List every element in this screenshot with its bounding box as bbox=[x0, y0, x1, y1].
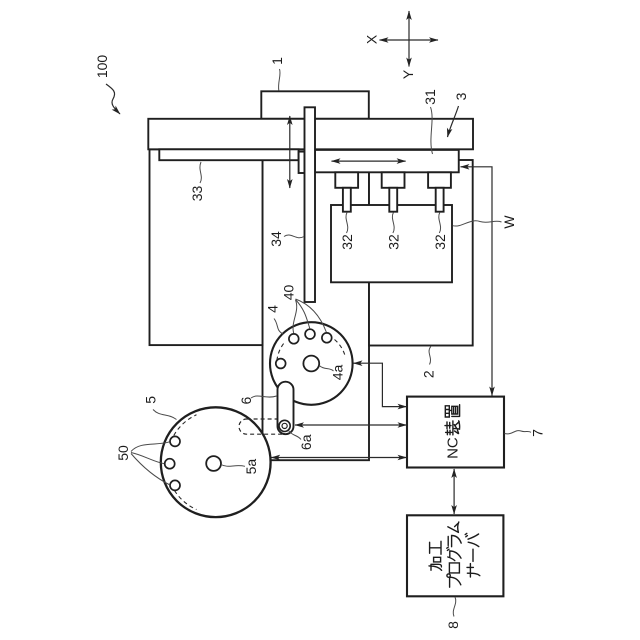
wire leader arrow of 3 bbox=[448, 106, 459, 137]
tool hole on 4 left bbox=[276, 359, 286, 369]
svg-text:NC: NC bbox=[445, 437, 462, 459]
kanji kou of kakou bbox=[430, 541, 441, 554]
dashed pitch arc lower on 5 bbox=[175, 491, 197, 510]
wire W feed line bbox=[461, 167, 493, 396]
svg-text:Y: Y bbox=[400, 69, 416, 79]
wire leader of 7 bbox=[505, 431, 532, 434]
turret disc 4 bbox=[270, 322, 353, 405]
svg-text:7: 7 bbox=[530, 429, 546, 437]
kanji sou of souchi bbox=[445, 421, 460, 435]
NC device text bbox=[445, 405, 462, 459]
bar 33 bbox=[159, 149, 298, 160]
tool hole on 5 upper bbox=[170, 436, 180, 446]
box 1 bbox=[261, 91, 369, 119]
dashed phantom link bbox=[239, 419, 292, 434]
svg-text:4a: 4a bbox=[330, 365, 346, 381]
horizontal double arrow in bar 31 bbox=[332, 160, 406, 162]
tool hole on 5 middle bbox=[165, 459, 175, 469]
svg-text:8: 8 bbox=[445, 621, 461, 629]
svg-text:1: 1 bbox=[269, 57, 285, 65]
bar 31 bbox=[315, 150, 459, 172]
svg-text:3: 3 bbox=[453, 92, 469, 100]
dashed pitch arc upper on 5 bbox=[174, 415, 197, 436]
svg-text:50: 50 bbox=[115, 445, 131, 461]
dashed pitch arc left on 4 bbox=[277, 344, 284, 361]
wire leader 40 to hole2 bbox=[296, 300, 310, 329]
svg-text:34: 34 bbox=[268, 231, 284, 247]
kanji ka of kakou bbox=[429, 557, 442, 570]
wire NC to turret 5 bbox=[271, 457, 406, 459]
svg-text:6a: 6a bbox=[298, 434, 314, 450]
wire leader arrow of 100 bbox=[106, 84, 120, 114]
wire leader 32 second bbox=[392, 213, 394, 234]
wire leader of 1 bbox=[279, 69, 281, 91]
central column bbox=[263, 149, 370, 460]
svg-text:32: 32 bbox=[339, 234, 355, 250]
wire leader 40 to hole3 bbox=[296, 299, 327, 332]
spindle stem 2 bbox=[389, 188, 397, 212]
svg-text:5: 5 bbox=[142, 396, 158, 404]
spindle body box bbox=[331, 205, 452, 282]
svg-text:4: 4 bbox=[264, 305, 280, 313]
center hole 5a bbox=[206, 456, 221, 471]
svg-text:40: 40 bbox=[281, 285, 297, 301]
wire leader 40 to hole1 bbox=[293, 300, 297, 333]
bar 34 bbox=[305, 107, 316, 302]
katakana pu bbox=[447, 574, 461, 587]
wire leader of 6a bbox=[289, 431, 302, 440]
wire leader of 33 bbox=[200, 162, 201, 183]
wire leader 32 third bbox=[439, 213, 441, 234]
katakana ra bbox=[448, 536, 461, 547]
NC device box 7 bbox=[407, 397, 504, 468]
spindle stem 1 bbox=[343, 188, 351, 212]
pivot 6a inner bbox=[282, 423, 287, 428]
katakana long dash bbox=[472, 549, 474, 561]
link arm 6 bbox=[278, 382, 294, 435]
spindle stem 3 bbox=[436, 188, 444, 212]
svg-text:33: 33 bbox=[189, 186, 205, 202]
wire leader of 31 bbox=[431, 107, 433, 154]
tool hole on 4 upper-left bbox=[289, 334, 299, 344]
svg-text:W: W bbox=[501, 215, 517, 229]
wire leader 50 to upper hole bbox=[131, 442, 170, 452]
svg-text:32: 32 bbox=[386, 234, 402, 250]
wire leader of 4a bbox=[319, 366, 333, 372]
svg-text:32: 32 bbox=[432, 234, 448, 250]
slider block bbox=[299, 152, 305, 173]
server box text bbox=[429, 522, 480, 587]
wire leader of 5 bbox=[153, 410, 177, 420]
wire leader 50 to lower hole bbox=[131, 454, 170, 486]
center hole 4a bbox=[303, 356, 319, 372]
axis cross vertical bbox=[408, 11, 410, 67]
wire leader 50 to middle hole bbox=[131, 453, 164, 464]
svg-text:2: 2 bbox=[420, 370, 436, 378]
wire leader of 2 bbox=[429, 347, 431, 365]
katakana mu bbox=[448, 522, 459, 532]
wire leader of 6 bbox=[251, 396, 277, 398]
kanji chi of souchi bbox=[445, 405, 459, 417]
left bed box bbox=[150, 149, 263, 345]
svg-text:100: 100 bbox=[94, 55, 110, 79]
wire NC to server double arrow bbox=[453, 469, 455, 514]
svg-text:5a: 5a bbox=[243, 459, 259, 475]
dashed pitch arc right on 4 bbox=[335, 340, 346, 357]
wire leader of 8 bbox=[453, 597, 456, 617]
wire NC to turret 4 bbox=[354, 363, 407, 406]
wire leader of W bbox=[453, 221, 502, 226]
katakana gu bbox=[447, 547, 461, 561]
tool hole on 4 upper-right bbox=[322, 333, 332, 343]
tool hole on 5 lower bbox=[170, 480, 180, 490]
spindle head 3 bbox=[428, 172, 451, 188]
rail 3 body bbox=[148, 119, 473, 150]
wire leader of 34 bbox=[284, 235, 304, 238]
katakana ba bbox=[465, 533, 479, 546]
wire NC to pivot 6a bbox=[295, 424, 407, 426]
svg-text:31: 31 bbox=[422, 89, 438, 105]
katakana sa bbox=[467, 564, 480, 577]
pivot 6a outer bbox=[279, 420, 290, 431]
katakana ro bbox=[449, 563, 459, 573]
axis cross horizontal bbox=[380, 39, 439, 41]
spindle head 1 bbox=[335, 172, 358, 188]
turret disc 5 bbox=[161, 407, 271, 517]
spindle head 2 bbox=[382, 172, 405, 188]
wire leader 32 first bbox=[346, 213, 348, 234]
tool hole on 4 top bbox=[305, 329, 315, 339]
svg-text:X: X bbox=[364, 34, 380, 44]
vertical double arrow (Z axis) bbox=[289, 116, 291, 188]
wire leader of 4 bbox=[274, 319, 283, 335]
machining program server box 8 bbox=[407, 515, 503, 596]
wire leader of 5a bbox=[221, 465, 245, 467]
box 2 column bbox=[369, 160, 473, 346]
